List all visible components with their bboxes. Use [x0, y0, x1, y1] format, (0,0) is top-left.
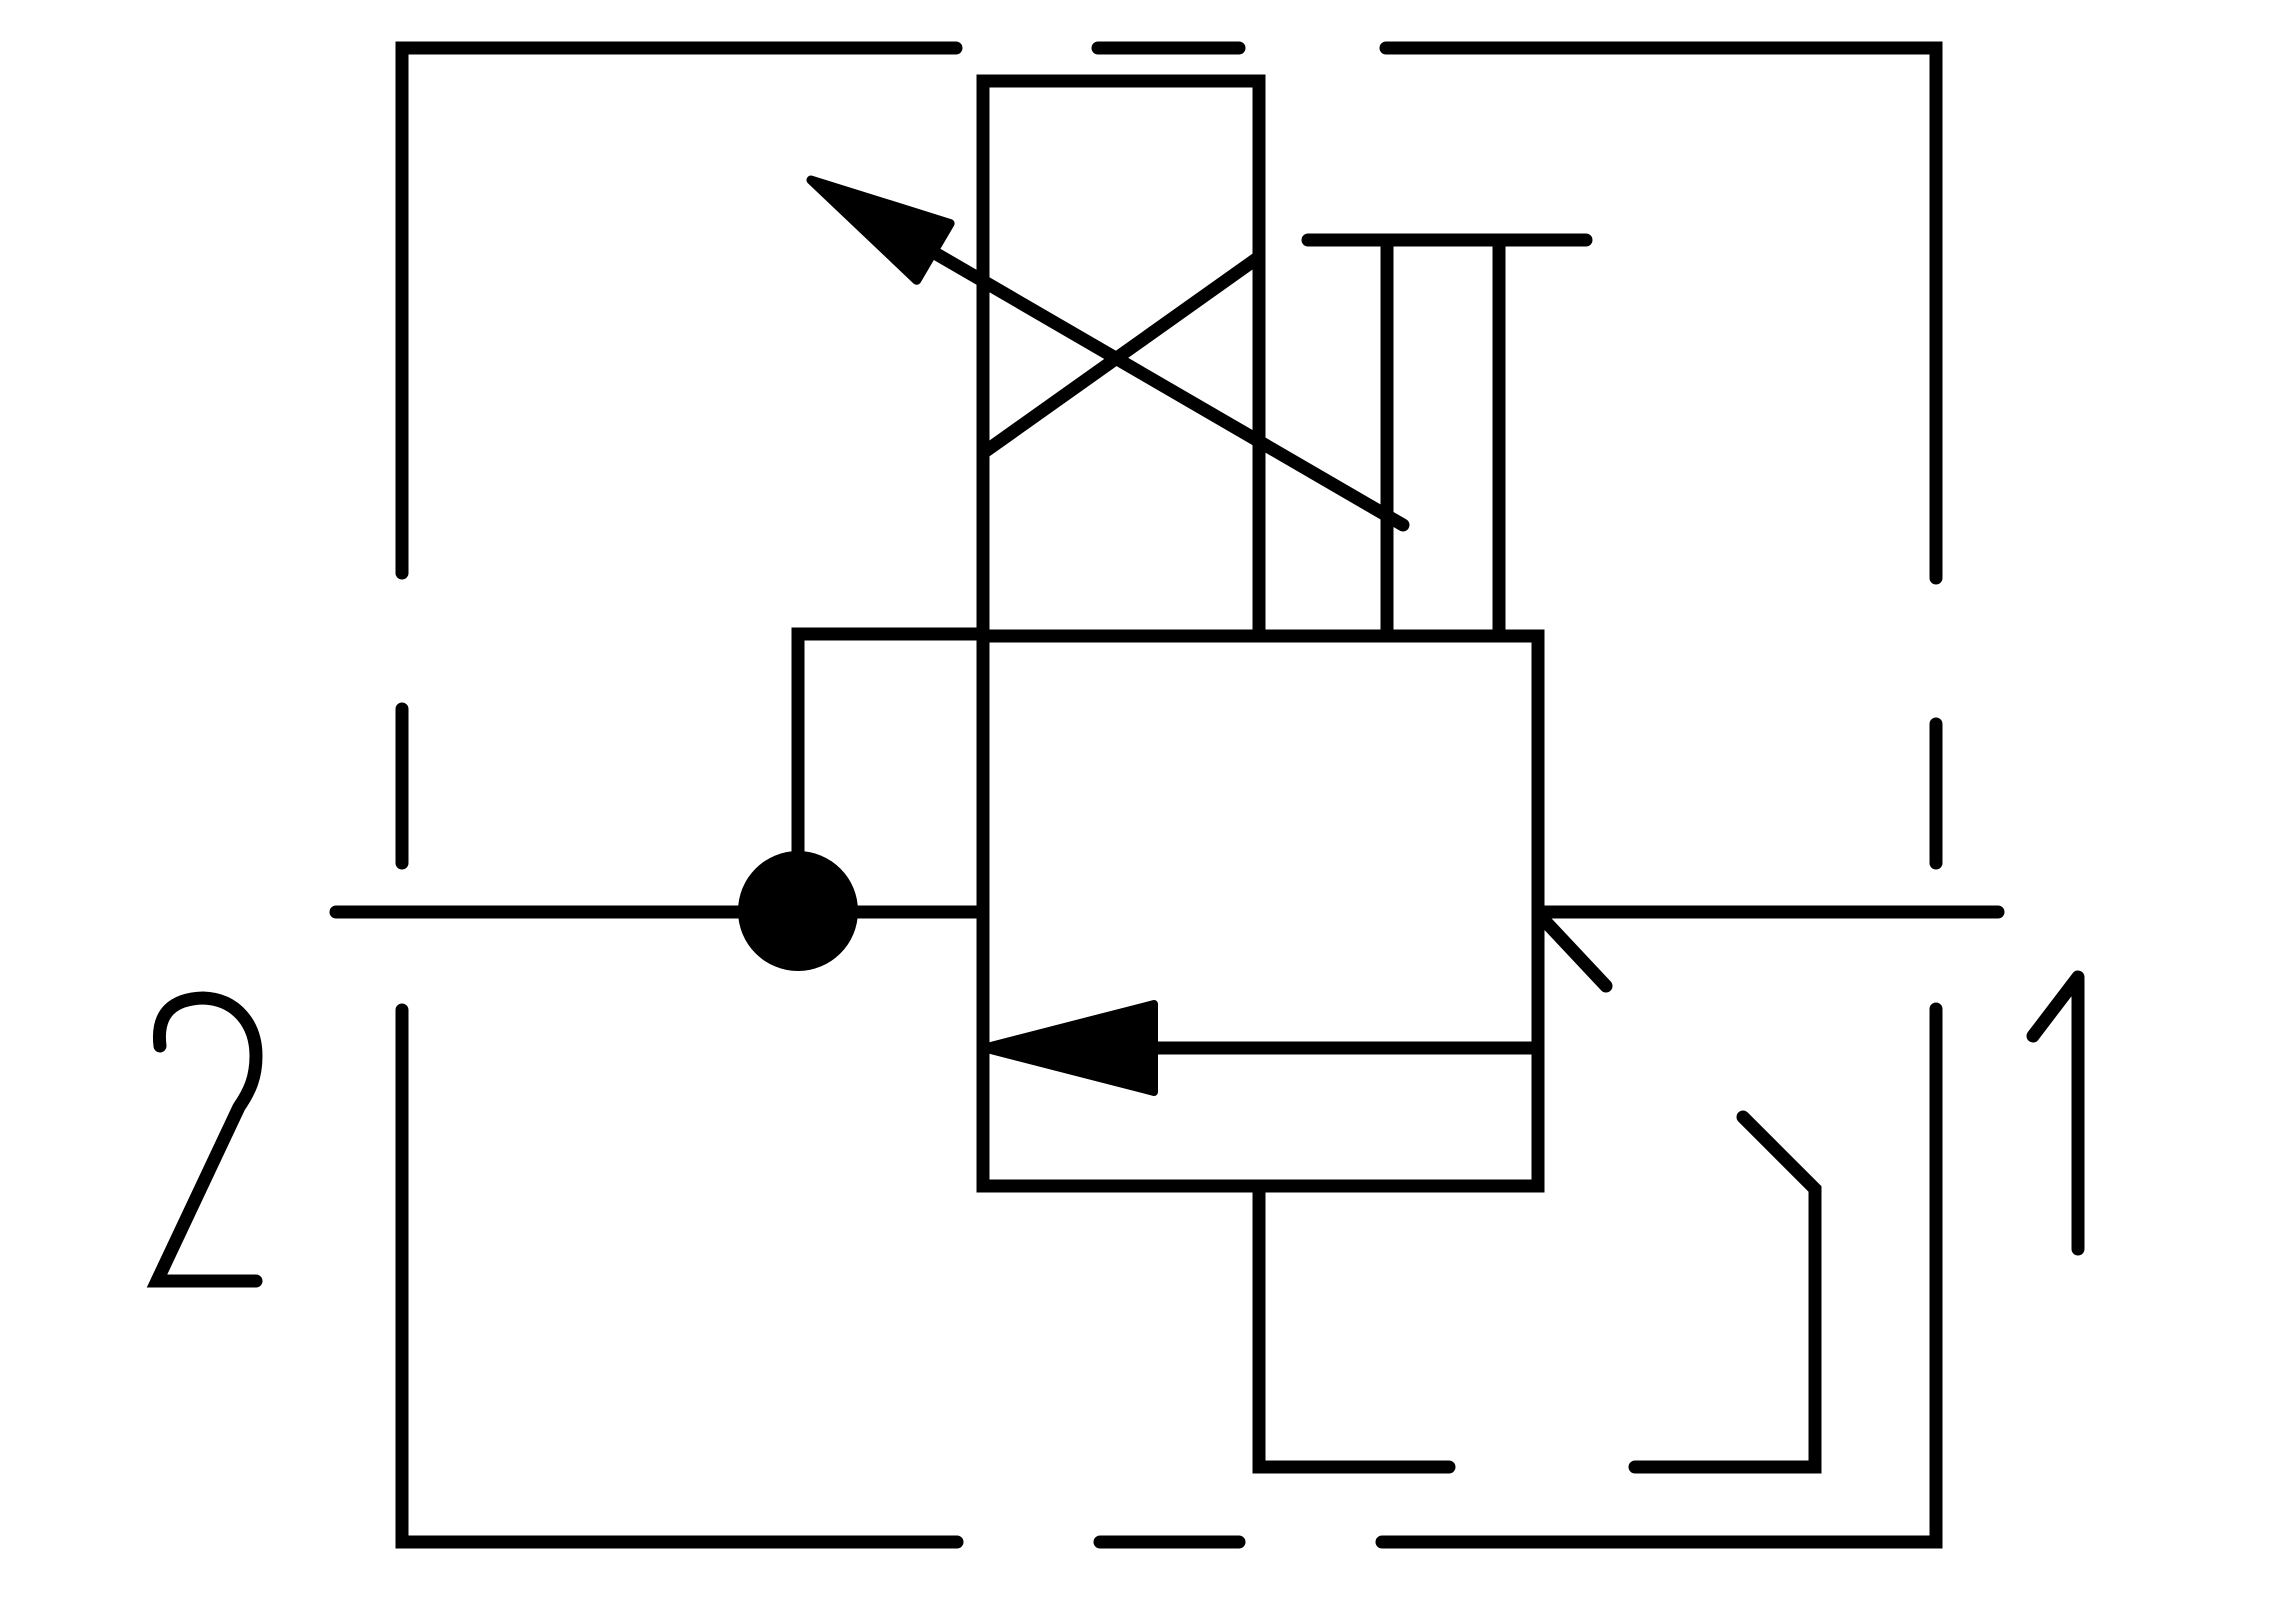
- spring top bar: [1308, 234, 1586, 247]
- bottom wire from valve body: [1259, 1186, 1449, 1467]
- enclosure border right middle dash: [1930, 724, 1943, 863]
- hook wire at port 1: [1635, 1117, 1815, 1467]
- junction node: [738, 851, 858, 971]
- port label 1: [2033, 977, 2078, 1249]
- spring right vertical: [1493, 240, 1506, 636]
- adjustment arrow shaft: [933, 252, 1403, 525]
- adjustment arrowhead: [811, 180, 950, 280]
- check valve arrowhead: [983, 1004, 1154, 1092]
- drain tick diagonal: [1545, 921, 1606, 986]
- spring left vertical: [1381, 240, 1394, 636]
- wire node to valve body: [798, 634, 983, 912]
- enclosure border bottom middle dash: [1100, 1536, 1239, 1549]
- enclosure border top-left corner dash: [402, 48, 956, 573]
- orifice diagonal: [983, 257, 1259, 453]
- enclosure border top-right corner dash: [1386, 48, 1936, 578]
- enclosure border bottom-right corner dash: [1382, 1009, 1936, 1542]
- enclosure border bottom-left corner dash: [402, 1010, 957, 1542]
- port 2 line: [336, 906, 983, 919]
- check valve arrow line: [1154, 1042, 1538, 1055]
- variable orifice rectangle: [983, 81, 1259, 636]
- enclosure border left middle dash: [396, 709, 409, 863]
- port 1 line: [1538, 906, 1998, 919]
- enclosure border top middle dash: [1098, 42, 1239, 55]
- port label 2: [157, 998, 256, 1281]
- valve body box: [983, 636, 1538, 1186]
